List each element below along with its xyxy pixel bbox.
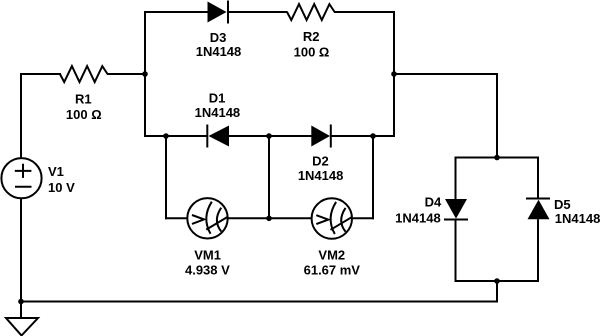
svg-text:D5: D5: [554, 197, 571, 212]
svg-text:VM2: VM2: [318, 247, 345, 262]
svg-text:D3: D3: [210, 30, 227, 45]
voltmeter VM2: [312, 198, 353, 238]
wire diode block top vertical: [496, 73, 498, 159]
wire VM2 right branch vertical: [372, 135, 374, 219]
diode D3: [208, 1, 229, 24]
svg-text:100 Ω: 100 Ω: [66, 107, 102, 122]
wire middle rail between D1 and D2: [229, 135, 312, 137]
diode D5: [526, 199, 550, 220]
wire D5 branch upper: [537, 157, 539, 200]
svg-text:1N4148: 1N4148: [195, 105, 241, 120]
wire VM1 to node B: [228, 217, 269, 219]
diode D4: [444, 199, 468, 220]
wire top rail right segment: [334, 11, 395, 13]
node junction top right: [391, 71, 397, 77]
wire V1 to R1: [20, 73, 61, 75]
svg-text:4.938 V: 4.938 V: [185, 262, 230, 277]
wire diode block bottom vertical: [496, 280, 498, 302]
wire left branch above V1: [20, 73, 22, 159]
node junction bottom left: [18, 299, 24, 305]
svg-text:10 V: 10 V: [48, 180, 75, 195]
wire left branch below V1: [20, 198, 22, 302]
wire bottom rail: [20, 301, 498, 303]
svg-text:V1: V1: [48, 164, 64, 179]
svg-text:1N4148: 1N4148: [555, 211, 600, 226]
svg-text:D1: D1: [209, 91, 226, 106]
diode D2: [311, 125, 331, 148]
wire node B to VM2: [269, 217, 312, 219]
wire D4 branch lower: [455, 220, 457, 283]
voltage source V1: [1, 158, 41, 198]
wire D4 branch upper: [455, 157, 457, 200]
svg-text:1N4148: 1N4148: [395, 211, 441, 226]
wire ground stem: [20, 302, 22, 320]
svg-text:1N4148: 1N4148: [196, 44, 242, 59]
node junction middle rail right: [370, 133, 376, 139]
node junction diode block bottom: [494, 278, 500, 284]
svg-text:VM1: VM1: [194, 247, 221, 262]
wire top rail between D3 and R2: [229, 11, 288, 13]
wire left vertical drop x=145: [144, 11, 146, 137]
wire R1 to node A: [107, 73, 145, 75]
wire VM1 left branch vertical: [165, 135, 167, 219]
svg-text:R2: R2: [303, 29, 320, 44]
wire right vertical drop x=394: [393, 11, 395, 137]
node junction diode block top: [494, 155, 500, 161]
resistor R1: [60, 66, 108, 82]
node junction between voltmeters: [266, 216, 272, 222]
wire VM2 right horizontal: [352, 217, 375, 219]
svg-text:D4: D4: [425, 195, 442, 210]
svg-text:1N4148: 1N4148: [298, 168, 344, 183]
diode D1: [207, 125, 229, 148]
svg-text:100 Ω: 100 Ω: [294, 45, 330, 60]
resistor R2: [287, 4, 335, 20]
wire D5 branch lower: [537, 219, 539, 282]
svg-text:R1: R1: [75, 92, 92, 107]
wire top rail left segment: [144, 11, 208, 13]
wire diode block bottom rail: [455, 280, 540, 282]
wire VM1 left horizontal: [165, 217, 188, 219]
wire middle rail left segment: [144, 135, 208, 137]
wire middle rail right segment: [331, 135, 395, 137]
wire diode block top rail: [455, 157, 540, 159]
node junction at R1 right: [142, 71, 148, 77]
voltmeter VM1: [187, 198, 228, 238]
wire middle branch vertical: [268, 135, 270, 218]
ground: [6, 318, 38, 336]
node junction middle rail left: [163, 133, 169, 139]
svg-text:61.67 mV: 61.67 mV: [304, 262, 361, 277]
svg-text:D2: D2: [312, 154, 329, 169]
wire top link to diode block: [394, 73, 498, 75]
node junction middle rail center: [266, 133, 272, 139]
